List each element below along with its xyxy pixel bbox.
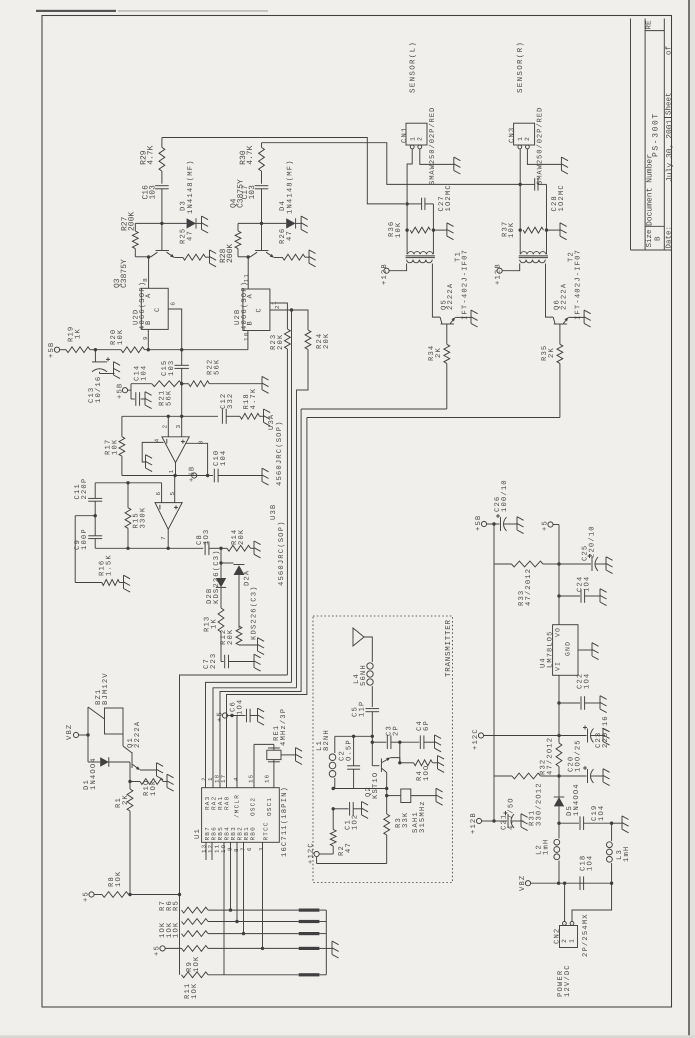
svg-text:330K: 330K [139, 507, 147, 529]
svg-text:56NH: 56NH [360, 664, 368, 686]
ground C22 [600, 696, 607, 713]
label R12 20K [220, 629, 235, 645]
node +12C rail [557, 734, 560, 737]
wire R35 down [307, 363, 560, 417]
wire T1 secondary right [432, 264, 440, 318]
label R11 10K [184, 983, 199, 999]
node R1 junction [128, 780, 131, 783]
power +5B C26 [475, 515, 494, 531]
resistor R25 [174, 254, 209, 260]
transformer T1 [406, 252, 435, 263]
power +5 C6 [217, 711, 232, 722]
label R16 1.5K [99, 554, 114, 576]
node +12B junction [492, 819, 495, 822]
svg-text:July 30, 2001: July 30, 2001 [666, 119, 675, 182]
svg-text:47/2O12: 47/2O12 [545, 737, 554, 775]
resistor R8 [102, 892, 180, 898]
label R1 2K [115, 794, 130, 808]
svg-text:+5B: +5B [117, 383, 125, 399]
wire bundle turn 5 [227, 418, 307, 788]
label U2B [234, 281, 249, 330]
wire U3B out row [95, 547, 203, 549]
node L1 C2 top [335, 735, 356, 738]
resistor R31 [494, 773, 559, 779]
node R4 junction [398, 761, 401, 764]
label D1 1N4004 [83, 757, 98, 790]
svg-text:O.5P: O.5P [345, 739, 353, 761]
label D5 1N4004 [566, 783, 581, 816]
transistor Q1 [123, 746, 157, 770]
resistor R27 [132, 223, 162, 256]
svg-text:1OK: 1OK [191, 983, 199, 999]
node D2A tap [219, 561, 233, 564]
inductor L1 [329, 736, 336, 788]
svg-text:2K: 2K [122, 794, 130, 805]
label C12 332 [220, 393, 235, 409]
wire C19 ground [612, 816, 629, 833]
wire CN1 pin1 down [407, 149, 412, 204]
svg-text:100/10: 100/10 [500, 479, 509, 512]
capacitor C4 [400, 735, 435, 749]
svg-text:10K: 10K [508, 222, 516, 238]
svg-text:1OK: 1OK [193, 956, 201, 972]
svg-text:+5B: +5B [48, 342, 56, 358]
svg-text:4.7K: 4.7K [147, 145, 156, 164]
title block text REV [646, 20, 654, 30]
node R37 right [545, 228, 548, 231]
svg-text:VBZ: VBZ [519, 875, 527, 891]
label CN2 [554, 928, 562, 944]
svg-text:47: 47 [345, 842, 353, 853]
wire +5B drop to R31/+12B [493, 524, 495, 821]
capacitor C16 [155, 186, 169, 224]
ground Q6 [584, 310, 591, 327]
label U3A [268, 414, 276, 430]
label R29 4.7K [140, 145, 156, 164]
wire U1 pin10 row5 [223, 842, 225, 975]
label C28 1O2MC [551, 184, 566, 211]
svg-text:4066(SOP): 4066(SOP) [138, 281, 147, 330]
resistor R21 [152, 381, 182, 387]
svg-text:+12C: +12C [472, 728, 480, 750]
node C15 rail tap [180, 348, 183, 351]
node C3 tap [371, 741, 374, 744]
node pin3 row tap [180, 415, 183, 418]
resonator RE1 [254, 744, 296, 787]
capacitor C19 [559, 816, 612, 830]
node U3B pin7 [167, 529, 170, 550]
resistor R17 [119, 416, 125, 475]
ground R18 [264, 409, 271, 426]
svg-text:4.7/5O: 4.7/5O [506, 797, 515, 830]
svg-text:2P/254MX: 2P/254MX [581, 913, 590, 957]
wire bundle turn 4 [220, 409, 301, 788]
label R20 10K [110, 329, 125, 345]
label R30 4.7K [239, 145, 255, 164]
node C26 junction [492, 522, 495, 525]
svg-text:1mH: 1mH [623, 846, 631, 862]
svg-text:6: 6 [170, 301, 177, 306]
capacitor C26 polarized [494, 514, 517, 531]
resistor R28 [235, 223, 261, 256]
label CN2 2P/254MX [581, 913, 590, 957]
svg-text:1O2: 1O2 [351, 814, 359, 830]
svg-text:RE: RE [646, 20, 654, 30]
resistor R10 [130, 779, 167, 785]
svg-text:OSC1: OSC1 [266, 797, 273, 816]
transistor Q4 [238, 223, 274, 257]
resistor R36 [410, 227, 447, 233]
svg-text:SMAW250/02P/RED: SMAW250/02P/RED [428, 107, 437, 185]
svg-text:2: 2 [162, 424, 169, 429]
transmitter dashed box [313, 616, 452, 883]
label 16C711(18PIN) [280, 786, 289, 857]
svg-text:VBZ: VBZ [66, 724, 74, 740]
svg-text:KST1O: KST1O [372, 772, 380, 799]
svg-text:1OK: 1OK [173, 922, 181, 938]
IC U2B 4066 [243, 289, 270, 331]
svg-text:20K: 20K [227, 629, 235, 645]
resistor R35 [557, 324, 563, 363]
wire Q1 base down [129, 762, 131, 782]
node C1 tap [332, 807, 335, 810]
capacitor C12 [222, 409, 240, 424]
wire T1 secondary left [389, 264, 407, 271]
svg-text:10: 10 [243, 331, 250, 341]
label L2 1mH [536, 839, 551, 855]
U1 top pin names [204, 794, 273, 818]
label U3B [270, 504, 278, 520]
svg-text:C: C [256, 307, 264, 312]
ground C24 [600, 589, 607, 606]
capacitor C25 polarized [559, 554, 606, 571]
wire U3A pin8 [186, 443, 208, 475]
svg-text:1N4148(MF): 1N4148(MF) [186, 159, 195, 214]
label C8 103 [196, 529, 211, 545]
U2B pin10 number [243, 331, 250, 341]
node R36 right [432, 228, 435, 231]
svg-text:1O4: 1O4 [237, 699, 245, 715]
svg-text:82NH: 82NH [323, 729, 331, 751]
U2D pin labels [145, 293, 162, 325]
svg-text:47/2012: 47/2012 [524, 568, 533, 606]
label C11 220P [74, 478, 89, 500]
wire C11 row [95, 482, 161, 484]
resistor R2 [330, 809, 336, 854]
ground D4 [301, 216, 308, 233]
power +5 rail top [542, 520, 559, 564]
node C24 tap [557, 594, 560, 597]
svg-text:+5: +5 [154, 945, 162, 956]
capacitor C1 [333, 802, 361, 816]
wire U3B pin5 [174, 476, 176, 503]
svg-text:1O2MC: 1O2MC [445, 184, 453, 211]
node R33 right [557, 562, 560, 565]
wire CN1 pin2 ground [420, 149, 461, 174]
ground R37 [560, 223, 567, 240]
power +5 R9 [154, 945, 182, 956]
svg-text:20K: 20K [238, 529, 246, 545]
capacitor C28 [520, 178, 546, 254]
power +5B main [48, 342, 66, 358]
ground C23 [603, 728, 610, 745]
transistor Q2 [372, 736, 400, 788]
svg-text:104: 104 [140, 365, 148, 381]
resistor R14 [221, 545, 254, 551]
label C18 104 [580, 855, 595, 871]
node SAW tap [385, 794, 388, 797]
resistor R13 [218, 608, 224, 662]
svg-text:RTCC: RTCC [262, 821, 269, 840]
node L1 bottom [332, 787, 335, 790]
svg-text:330/2O12: 330/2O12 [534, 782, 543, 826]
label TRANSMITTER [444, 619, 453, 677]
title block text Document Number [646, 154, 655, 226]
label C23 220/16 [595, 715, 610, 748]
label CN1 SMAW250/02P/RED [428, 107, 437, 185]
svg-text:200K: 200K [226, 244, 235, 263]
label R10 10K [143, 780, 158, 796]
capacitor C15 [175, 365, 189, 368]
diode D4 [286, 218, 301, 228]
label C6 104 [230, 699, 245, 715]
resistor R18 [240, 413, 264, 419]
ground C13 [114, 362, 121, 379]
transformer T2 [519, 252, 548, 263]
U2D pin6 number [170, 301, 177, 306]
node R21 tap [180, 382, 183, 385]
label R24 20K [316, 333, 331, 349]
svg-text:KDS226(C3): KDS226(C3) [250, 585, 259, 640]
label C3 2P [386, 725, 401, 736]
svg-text:1O4: 1O4 [598, 805, 606, 821]
node L2 bottom [557, 882, 560, 885]
svg-text:4.7K: 4.7K [246, 145, 255, 164]
node U2D pin9 tap [147, 348, 150, 351]
resistor R32 [556, 736, 562, 777]
resistor R23 [285, 329, 291, 675]
power +5B opamp [189, 466, 197, 482]
svg-text:104: 104 [220, 450, 228, 466]
svg-text:1O3: 1O3 [203, 529, 211, 545]
connector CN2 [560, 922, 578, 948]
svg-text:1K: 1K [74, 328, 82, 339]
label C21 4.7/50 [501, 797, 516, 830]
svg-text:Sheet: Sheet [665, 92, 674, 115]
wire U1 pin9 row1 [230, 842, 232, 910]
wire U2D pin8 [148, 257, 150, 288]
svg-text:U3A: U3A [268, 414, 276, 430]
svg-text:332: 332 [227, 393, 235, 409]
inductor L3 [607, 823, 613, 883]
capacitor C11 [88, 483, 102, 516]
transistor Q5 [440, 317, 471, 324]
capacitor C2 [347, 736, 360, 788]
node Q3 collector / U2D pin8 [147, 255, 150, 258]
ground R14 [254, 541, 261, 558]
svg-text:C3875Y: C3875Y [237, 179, 246, 208]
svg-text:100P: 100P [81, 528, 89, 550]
svg-text:56K: 56K [165, 390, 173, 406]
op-amp U3A [162, 416, 189, 462]
U2D pin9 number [142, 335, 149, 340]
svg-text:3: 3 [258, 846, 265, 851]
capacitor C8 [205, 542, 221, 556]
svg-text:10K: 10K [111, 439, 119, 455]
node C13 tap [94, 348, 97, 351]
node C6 junction [230, 714, 233, 717]
ground C4 [435, 735, 442, 752]
label R13 1K [204, 616, 219, 632]
wire U2B pin2 out [270, 303, 288, 329]
U2B pin labels [247, 293, 264, 325]
svg-text:/MCLR: /MCLR [233, 794, 240, 818]
wire CN2 pin1 [564, 883, 566, 921]
label C27 1O2MC [438, 184, 453, 211]
label C26 100/10 [494, 479, 509, 512]
wire U2B pin1 out [270, 310, 292, 682]
U3B pin numbers [155, 491, 176, 540]
title block text of [665, 45, 674, 55]
U2B pin12 pin1 numbers [271, 300, 281, 309]
label R33 47/2012 [518, 568, 533, 606]
label D2A KDS226(C3) [244, 570, 259, 640]
label R32 47/2012 [540, 737, 555, 775]
svg-text:223: 223 [210, 653, 218, 669]
capacitor C5 [366, 709, 380, 737]
svg-text:33K: 33K [402, 812, 410, 828]
label L3 1mH [616, 846, 631, 862]
ground R4 [438, 756, 445, 773]
node C8 out [219, 547, 222, 550]
IC U2D 4066 [141, 288, 168, 329]
capacitor C9 [88, 516, 102, 549]
power +12C top [472, 728, 559, 750]
node T1 top [405, 202, 408, 205]
svg-text:CN2: CN2 [554, 928, 562, 944]
svg-text:7: 7 [160, 535, 167, 540]
wire inverting row [122, 415, 218, 417]
label R19 1K [68, 326, 83, 342]
svg-text:3: 3 [175, 424, 182, 429]
label C10 104 [213, 450, 228, 466]
label CN3 SMAW250/02P/RED [536, 107, 545, 185]
svg-text:VO: VO [555, 627, 562, 637]
svg-text:4MHz/3P: 4MHz/3P [279, 708, 288, 746]
wire detector rail [220, 548, 222, 578]
svg-text:2K: 2K [548, 347, 556, 358]
svg-text:LM78LO5: LM78LO5 [546, 631, 554, 668]
title block [631, 19, 672, 251]
label T1 IFT-402J-IF07 [455, 249, 470, 320]
node R37 left [519, 228, 522, 231]
svg-text:Date:: Date: [666, 226, 674, 249]
capacitor C18 [580, 876, 584, 890]
svg-text:103: 103 [248, 185, 257, 200]
label SAW1 315MHz [412, 800, 427, 833]
label C24 104 [577, 576, 592, 592]
node Q4 base junction [260, 222, 263, 225]
svg-text:6: 6 [246, 846, 253, 851]
wire rows join [319, 910, 326, 975]
label C19 104 [591, 805, 606, 821]
ground D3 [202, 216, 209, 233]
wire U2D pin6 [168, 309, 182, 350]
label C2 0.5P [339, 739, 354, 761]
label R21 56K [159, 390, 174, 406]
svg-text:6P: 6P [423, 720, 431, 731]
node C19 junction [557, 822, 560, 825]
svg-text:KDS226(C3): KDS226(C3) [212, 549, 221, 604]
ground C25 [606, 557, 613, 574]
svg-text:1: 1 [517, 136, 524, 141]
svg-text:+12B: +12B [470, 812, 478, 834]
svg-text:47: 47 [286, 230, 294, 241]
ground R10 [167, 774, 174, 791]
wire U2B pin10 to +5B row [247, 331, 249, 350]
svg-text:B: B [654, 236, 662, 241]
wire T2 secondary right [546, 264, 554, 318]
resistor R24 [297, 330, 311, 688]
power VBZ right [519, 875, 559, 891]
svg-text:U3B: U3B [270, 504, 278, 520]
wire CN3 pin1 down [519, 149, 521, 185]
label T2 IFT-402J-IF07 [568, 249, 583, 320]
label U2D [132, 281, 147, 330]
ground R36 [447, 223, 454, 240]
diode D2B [216, 578, 226, 608]
node R1 bottom [128, 893, 131, 896]
node T2 top [519, 183, 522, 186]
resistor R22 [182, 381, 262, 387]
node CN2 pin1 riser [563, 882, 566, 885]
ground C14 [145, 392, 152, 409]
wire +5B row [90, 349, 248, 351]
svg-text:220/10: 220/10 [587, 525, 596, 558]
svg-text:SENSOR(L): SENSOR(L) [408, 41, 417, 93]
node U3A out [173, 474, 176, 477]
label C13 10/16 [88, 376, 103, 403]
capacitor C24 [559, 589, 600, 603]
svg-text:U1: U1 [194, 828, 202, 839]
label R14 20K [231, 529, 246, 545]
wire C9 branch [75, 516, 95, 583]
node L3 top [610, 822, 613, 825]
node R24 branch [290, 308, 293, 311]
svg-text:+5B: +5B [475, 515, 483, 531]
wire W1 sensor-L signal [162, 138, 405, 204]
label L4 56NH [353, 664, 368, 686]
ground C10 [262, 468, 269, 485]
svg-text:20K: 20K [323, 333, 331, 349]
resistor R5 [182, 907, 299, 913]
ground R26 [309, 250, 316, 267]
wire L1 bottom row [333, 788, 387, 790]
label D4 1N4148(MF) [279, 159, 295, 214]
wire collector down [386, 789, 388, 815]
svg-text:200K: 200K [128, 212, 137, 231]
connector CN3 [514, 123, 535, 149]
capacitor C3 [372, 735, 400, 749]
svg-text:C3875Y: C3875Y [120, 259, 129, 288]
U1 top pin numbers [200, 774, 270, 783]
IC U4 LM78L05 [553, 625, 578, 676]
svg-text:CN1: CN1 [401, 127, 409, 143]
ground RE1 [296, 748, 303, 765]
power +12B T1 [381, 263, 389, 285]
svg-text:1.5K: 1.5K [105, 554, 113, 576]
svg-text:4.7K: 4.7K [250, 388, 258, 410]
